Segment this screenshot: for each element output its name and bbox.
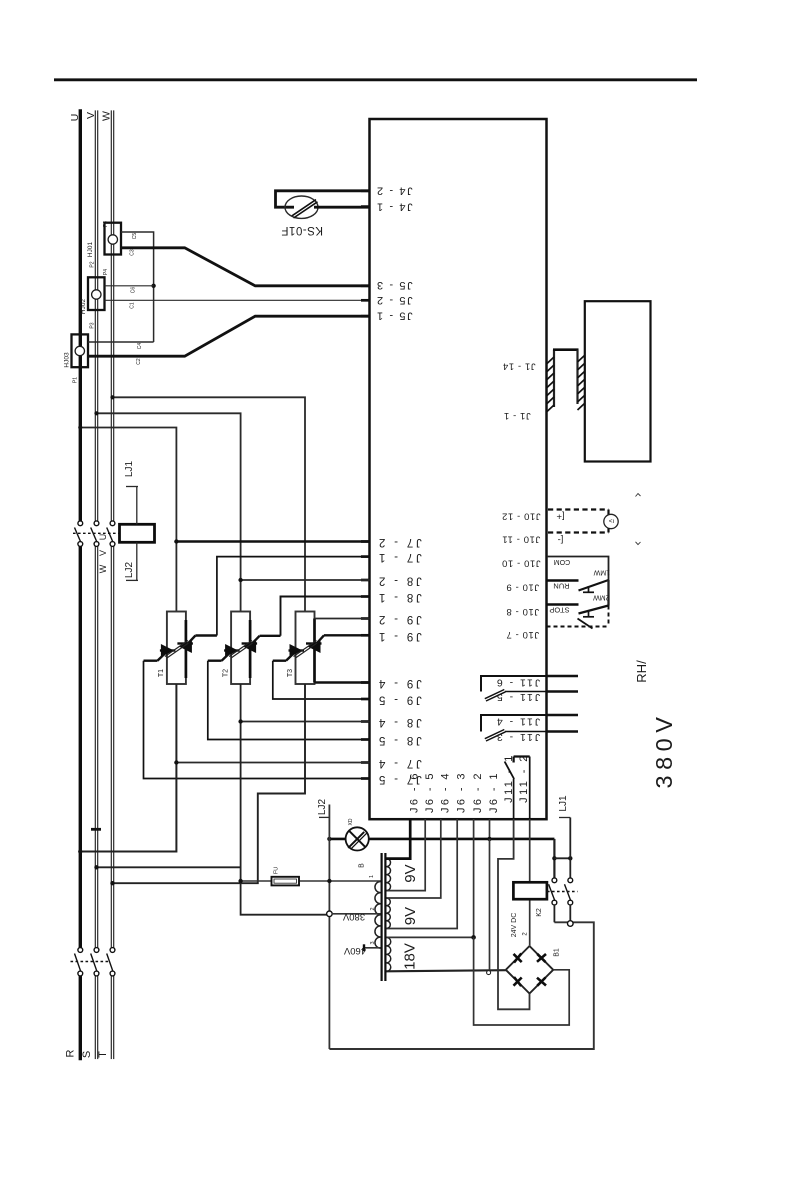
link switch J11-4/J11-3 inside board bbox=[481, 715, 547, 741]
svg-text:STOP: STOP bbox=[549, 605, 569, 614]
svg-text:LJ1: LJ1 bbox=[558, 795, 569, 812]
svg-text:S: S bbox=[81, 1051, 93, 1058]
wire HJ03 upper terminal to tie bus bbox=[88, 341, 154, 343]
junction lamp / LJ2 line bbox=[327, 837, 331, 841]
overload relay HJ03 body bbox=[72, 334, 89, 367]
wire J6-4 to sec2 top bbox=[387, 819, 441, 898]
svg-text:W: W bbox=[98, 564, 108, 573]
svg-text:J7 - 4: J7 - 4 bbox=[376, 757, 422, 769]
label LJ2 with tick bbox=[124, 562, 138, 581]
svg-text:J4 - 1: J4 - 1 bbox=[375, 200, 412, 212]
svg-text:J10 - 9: J10 - 9 bbox=[506, 582, 539, 593]
K2 contact pole B bbox=[565, 858, 574, 926]
wire J9-2 anode tap bbox=[315, 618, 370, 620]
svg-text:J1 - 14: J1 - 14 bbox=[502, 361, 535, 372]
meter circle bbox=[604, 514, 618, 528]
wire J9-4 cathode tap bbox=[315, 681, 370, 683]
svg-text:J9 - 4: J9 - 4 bbox=[376, 677, 422, 689]
fuse FU bbox=[272, 877, 300, 886]
branch wire line S to triac T2 feed bbox=[97, 413, 241, 611]
triac T3 symbol bbox=[289, 640, 322, 658]
wire HJ03 lower terminal to J5-1 (funnel) bbox=[88, 316, 370, 356]
svg-text:J10 - 8: J10 - 8 bbox=[506, 606, 539, 617]
breaker pole 1 (bottom) bbox=[75, 948, 83, 976]
svg-text:C2: C2 bbox=[136, 358, 142, 365]
junction T2 anode bbox=[238, 578, 242, 582]
svg-text:J6 - 2: J6 - 2 bbox=[472, 771, 484, 813]
wire HJ01 upper terminal to tie bus bbox=[121, 232, 154, 342]
interlock blade bbox=[578, 619, 593, 629]
contactor LJ1 pole 2 bbox=[91, 521, 99, 547]
junction fuse wire / LJ2 line bbox=[327, 879, 331, 883]
junction T1 cathode / line R bbox=[78, 849, 82, 853]
svg-text:T3: T3 bbox=[287, 669, 294, 677]
svg-text:[-: [- bbox=[558, 534, 564, 545]
button RUN blade bbox=[579, 580, 609, 592]
svg-text:FU: FU bbox=[274, 867, 280, 874]
bridge diode marks bbox=[514, 954, 547, 987]
svg-text:[+: [+ bbox=[556, 511, 565, 522]
svg-text:U: U bbox=[69, 114, 81, 122]
svg-text:B: B bbox=[359, 863, 366, 868]
connector J1 ribbon left bar with hatching bbox=[547, 350, 555, 412]
wire 380V loop bottom and right side bbox=[329, 922, 593, 1049]
triac T1 module body bbox=[167, 612, 186, 685]
junction tie bus / HJ02 bbox=[151, 284, 155, 288]
svg-text:J1 - 1: J1 - 1 bbox=[503, 410, 530, 421]
branch wire line T to triac T3 feed bbox=[113, 397, 306, 611]
secondary winding 18V bbox=[387, 937, 391, 971]
wire T2 gate to J8-1 bbox=[253, 597, 370, 644]
svg-text:P4: P4 bbox=[103, 269, 109, 275]
secondary winding 9V no.2 bbox=[387, 898, 391, 928]
contactor coil LJ1 bbox=[120, 524, 155, 542]
svg-text:RH/: RH/ bbox=[634, 660, 649, 683]
svg-text:J9 - 1: J9 - 1 bbox=[376, 630, 422, 642]
svg-text:J8 - 1: J8 - 1 bbox=[376, 591, 422, 603]
junction J8-4 bbox=[238, 719, 242, 723]
connector J1 ribbon right bar with hatching bbox=[578, 350, 586, 410]
svg-text:J10 - 10: J10 - 10 bbox=[501, 558, 540, 569]
wire J8-2 anode tap bbox=[241, 579, 370, 581]
svg-text:HJ03: HJ03 bbox=[64, 352, 71, 368]
wire J6-1 down to bridge AC wire bbox=[489, 839, 491, 970]
svg-text:J8 - 4: J8 - 4 bbox=[376, 716, 422, 728]
junction T1 anode bbox=[174, 539, 178, 543]
coil lead lower bbox=[136, 542, 138, 580]
button station mid rail bbox=[607, 580, 609, 606]
wire T2 aux cathode to J8-5 bbox=[208, 654, 370, 740]
wire T1 aux cathode to J7-5 bbox=[144, 654, 370, 779]
junction T3 cathode / line T bbox=[110, 881, 114, 885]
wire J11-1 to bridge minus bbox=[498, 819, 530, 1009]
svg-text:24V DC: 24V DC bbox=[511, 913, 518, 938]
K2 linkage dashed bbox=[547, 891, 578, 893]
svg-text:J11 - 2: J11 - 2 bbox=[518, 753, 530, 803]
svg-text:J7 - 2: J7 - 2 bbox=[376, 536, 422, 548]
junction LJ1 aux / pole B bbox=[568, 856, 572, 860]
svg-text:<ı: <ı bbox=[609, 518, 615, 525]
svg-text:J6 - 4: J6 - 4 bbox=[439, 771, 451, 813]
wire T1 gate to J7-1 bbox=[188, 557, 369, 643]
wire J7-2 anode tap bbox=[176, 540, 369, 543]
wire T3 gate to J9-1 bbox=[317, 635, 370, 643]
wire HJ01 lower terminal to J5-3 (funnel) bbox=[121, 248, 370, 286]
wire J6-6 to sec1 top bbox=[387, 819, 411, 859]
wire HJ02 lower terminal to J5-2 bbox=[105, 299, 370, 301]
svg-text:J8 - 5: J8 - 5 bbox=[376, 734, 422, 746]
label LJ1 with tick bbox=[124, 461, 138, 487]
wire J6-5 to sec1 bottom bbox=[387, 819, 426, 891]
svg-text:J11 - 3: J11 - 3 bbox=[495, 731, 540, 743]
svg-text:380V: 380V bbox=[651, 712, 677, 789]
coil lead upper bbox=[136, 487, 138, 524]
wire HJ02 upper terminal to tie bus bbox=[105, 285, 154, 287]
svg-text:V: V bbox=[98, 550, 108, 556]
wire switch to J4-1 bbox=[314, 206, 370, 209]
bridge rectifier B1 bbox=[506, 946, 553, 994]
button station COM rail bbox=[547, 557, 609, 581]
wire lamp bar to K2 contact bbox=[369, 838, 555, 841]
relay coil K2 bbox=[513, 882, 547, 899]
svg-text:J6 - 5: J6 - 5 bbox=[424, 771, 436, 813]
svg-text:3: 3 bbox=[370, 941, 376, 944]
terminal circle at AC junction bbox=[487, 971, 491, 975]
svg-text:LJ1: LJ1 bbox=[124, 461, 135, 478]
svg-text:2: 2 bbox=[370, 907, 376, 910]
pin J11-6 stub wire bbox=[547, 675, 579, 678]
triac T1 symbol bbox=[160, 640, 193, 658]
wire J8-4 cathode tap bbox=[241, 721, 370, 723]
breaker pole 2 (bottom) bbox=[91, 948, 99, 976]
triac T2 symbol bbox=[224, 640, 257, 658]
svg-text:R: R bbox=[65, 1049, 77, 1057]
triac T3 module body bbox=[296, 612, 315, 685]
K2 contact pole A bbox=[549, 839, 557, 922]
primary 460V stub bbox=[364, 944, 381, 951]
triac T2 module body bbox=[231, 612, 250, 685]
svg-text:K2: K2 bbox=[536, 908, 543, 917]
wire J7-4 cathode tap bbox=[176, 762, 369, 764]
svg-text:J10 - 11: J10 - 11 bbox=[502, 534, 540, 545]
controller board outline bbox=[370, 119, 547, 819]
svg-text:LJ2: LJ2 bbox=[317, 799, 328, 816]
pin J11-3 stub wire bbox=[547, 730, 579, 733]
transformer primary winding bbox=[375, 882, 381, 949]
svg-text:1MW: 1MW bbox=[593, 569, 610, 576]
svg-text:J4 - 2: J4 - 2 bbox=[375, 185, 412, 197]
svg-text:LJ2: LJ2 bbox=[124, 562, 135, 579]
secondary winding 9V no.1 bbox=[387, 859, 391, 891]
svg-text:9V: 9V bbox=[402, 864, 419, 882]
wire LJ2 drop to 380V loop bbox=[328, 805, 330, 1050]
wire lamp to LJ2 line bbox=[329, 838, 345, 841]
svg-text:18V: 18V bbox=[402, 943, 419, 970]
svg-text:U: U bbox=[98, 534, 108, 541]
junction pole A / LJ1 aux bbox=[552, 856, 556, 860]
wire T1 cathode to line R bbox=[80, 684, 176, 852]
contactor linkage dashed bbox=[73, 532, 120, 534]
svg-text:C6: C6 bbox=[131, 287, 137, 294]
display unit box bbox=[585, 301, 651, 461]
wire T2 cathode to line S and transformer tap bbox=[97, 684, 330, 915]
tick marker on line S bbox=[91, 828, 101, 831]
svg-text:C4: C4 bbox=[137, 343, 143, 350]
wire RUN to J10-9 bbox=[547, 579, 579, 582]
interlock dashed bottom to J10-7 bbox=[547, 626, 609, 628]
primary terminal 1 wire (fused, from T2 output) bbox=[241, 880, 381, 882]
svg-text:J10 - 7: J10 - 7 bbox=[506, 629, 539, 640]
header rule bbox=[54, 78, 697, 81]
terminal circle 380V tap bbox=[327, 911, 333, 917]
svg-text:T1: T1 bbox=[158, 669, 165, 677]
switch at J11 inside board bbox=[505, 757, 530, 820]
svg-text:T: T bbox=[97, 1051, 109, 1058]
battery dashed wire J10-11 bbox=[548, 528, 609, 532]
wire T3 cathode to line T bbox=[113, 684, 306, 883]
overload relay HJ01 body bbox=[105, 223, 122, 255]
wire sec3 bottom to bridge AC left bbox=[387, 970, 506, 971]
svg-text:P3: P3 bbox=[90, 322, 96, 328]
interlock dashed right bbox=[608, 606, 610, 627]
svg-text:KS-01F: KS-01F bbox=[281, 224, 323, 236]
pin J11-5 stub wire bbox=[547, 690, 579, 693]
wire AC loop sec3 top to bridge AC right bbox=[474, 937, 570, 1025]
svg-text:W: W bbox=[101, 111, 113, 121]
switch KS-01F (circle with blade) bbox=[285, 196, 318, 218]
svg-text:HJ01: HJ01 bbox=[87, 242, 94, 258]
svg-text:380V: 380V bbox=[342, 911, 365, 922]
primary 380V tap wire bbox=[332, 913, 381, 915]
transformer core bbox=[382, 853, 386, 981]
svg-text:J6 - 3: J6 - 3 bbox=[456, 771, 468, 813]
svg-text:P2: P2 bbox=[90, 261, 96, 267]
breaker linkage dashed bbox=[71, 961, 111, 963]
svg-text:9V: 9V bbox=[402, 907, 419, 925]
svg-text:HJ02: HJ02 bbox=[80, 299, 87, 315]
junction on line S bbox=[94, 411, 98, 415]
tick mark lower bbox=[636, 542, 641, 545]
button STOP blade bbox=[579, 606, 609, 617]
svg-text:XD: XD bbox=[348, 818, 354, 825]
phase line R (left bold vertical) bbox=[79, 111, 82, 1059]
svg-text:460V: 460V bbox=[343, 945, 366, 956]
svg-text:P6: P6 bbox=[103, 221, 109, 227]
wire J6-1 to lamp bar bbox=[489, 819, 491, 839]
link switch J11-6/J11-5 inside board bbox=[481, 676, 547, 701]
junction fuse wire / T2 output bbox=[238, 879, 242, 883]
svg-text:RUN: RUN bbox=[553, 581, 569, 590]
label LJ2 with tick (aux contact) bbox=[317, 799, 329, 818]
svg-text:C5: C5 bbox=[132, 233, 138, 240]
svg-text:2MW: 2MW bbox=[593, 593, 610, 600]
svg-text:J6 - 6: J6 - 6 bbox=[409, 771, 421, 813]
battery dashed wire J10-12 bbox=[548, 510, 609, 515]
label LJ1 with tick (aux contact) bbox=[558, 795, 570, 858]
svg-text:J10 - 12: J10 - 12 bbox=[501, 511, 540, 522]
junction on line R bbox=[78, 425, 82, 429]
wire STOP to J10-8 bbox=[547, 603, 579, 606]
svg-text:J11 - 5: J11 - 5 bbox=[495, 691, 540, 703]
svg-text:J8 - 2: J8 - 2 bbox=[376, 575, 422, 587]
svg-text:J6 - 1: J6 - 1 bbox=[488, 771, 500, 813]
svg-text:C3: C3 bbox=[130, 249, 136, 256]
wire J11-2 through K2 coil to bridge plus bbox=[529, 819, 531, 946]
wire J6-3 to sec2 bottom bbox=[387, 819, 458, 929]
overload relay HJ02 body bbox=[88, 277, 105, 310]
svg-text:J11 - 6: J11 - 6 bbox=[495, 677, 540, 689]
wire T3 aux cathode to J9-5 bbox=[273, 654, 370, 699]
svg-text:COM: COM bbox=[554, 558, 571, 565]
svg-text:B1: B1 bbox=[554, 948, 561, 957]
svg-text:T2: T2 bbox=[223, 669, 230, 677]
phase line S (middle double vertical) bbox=[95, 111, 97, 1059]
branch wire line R to triac T1 feed bbox=[80, 428, 176, 612]
svg-text:J9 - 5: J9 - 5 bbox=[376, 694, 422, 706]
wire sec3 top to J6-2 bbox=[387, 819, 474, 937]
svg-text:C1: C1 bbox=[130, 302, 136, 309]
breaker pole 3 (bottom) bbox=[107, 948, 115, 976]
svg-text:1: 1 bbox=[369, 875, 375, 878]
svg-text:J5 - 3: J5 - 3 bbox=[375, 279, 412, 291]
junction J7-4 bbox=[174, 760, 178, 764]
svg-text:J5 - 2: J5 - 2 bbox=[375, 294, 412, 306]
svg-text:J11 - 4: J11 - 4 bbox=[495, 716, 540, 728]
pin J11-4 stub wire bbox=[547, 714, 579, 717]
indicator lamp bbox=[346, 827, 369, 850]
wire J4-2 to switch KS-01F bbox=[276, 191, 370, 207]
tick mark upper bbox=[636, 494, 641, 497]
contactor LJ1 pole 3 bbox=[107, 521, 115, 547]
svg-text:P1: P1 bbox=[73, 377, 79, 383]
junction on line T bbox=[110, 395, 114, 399]
wire LJ1 aux link bbox=[554, 857, 570, 859]
junction T2 cathode / line S bbox=[94, 865, 98, 869]
left edge pin stubs bbox=[361, 191, 371, 779]
svg-text:J7 - 1: J7 - 1 bbox=[376, 551, 422, 563]
svg-text:J9 - 2: J9 - 2 bbox=[376, 613, 422, 625]
phase line T (right double vertical) bbox=[111, 111, 113, 1059]
contactor LJ1 pole 1 bbox=[75, 521, 83, 547]
svg-text:J5 - 1: J5 - 1 bbox=[375, 310, 412, 322]
connector J1 ribbon cable top bbox=[553, 348, 579, 351]
junction sec3 top / J6-2 bbox=[471, 935, 476, 940]
svg-text:V: V bbox=[85, 112, 97, 119]
junction J6-1 / lamp bar bbox=[487, 837, 491, 841]
